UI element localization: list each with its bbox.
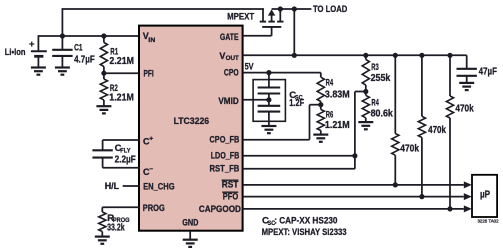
pin PFI label [144, 69, 154, 79]
pin LDO_FB label [211, 150, 240, 160]
svg-text:2.21M: 2.21M [109, 56, 134, 67]
wire GATE [243, 35, 272, 37]
470k-A label [400, 144, 419, 155]
svg-text:R6: R6 [326, 110, 334, 121]
svg-text:PROG: PROG [143, 203, 165, 213]
R1 label [109, 46, 134, 67]
wire VIN rail [38, 35, 140, 37]
ground (47uF) [459, 83, 474, 90]
svg-text:VMID: VMID [218, 96, 239, 106]
svg-text:PFI: PFI [144, 69, 154, 79]
node drain junction [278, 6, 283, 11]
svg-text:470k: 470k [400, 144, 419, 155]
pin VMID label [218, 96, 239, 106]
svg-text:CPO: CPO [224, 67, 239, 77]
wire C+ pin [103, 140, 140, 150]
pin RST_FB label [210, 163, 240, 173]
wire RST to uP [243, 181, 472, 188]
svg-text:CAPGOOD: CAPGOOD [199, 204, 241, 214]
svg-text:PFO: PFO [223, 191, 239, 201]
node rail/470k-C [447, 53, 452, 58]
node rail/470k-B [419, 53, 424, 58]
wire LDO_FB [243, 155, 355, 157]
node R3/R4 junction [363, 89, 368, 94]
svg-text:IN: IN [148, 37, 155, 44]
ground (R4b) [358, 122, 373, 129]
resistor R6 [317, 105, 324, 135]
47uF label [479, 67, 497, 78]
battery plus sign [29, 39, 35, 50]
svg-text:C1: C1 [74, 43, 83, 54]
wire CPO [243, 72, 321, 74]
Li-Ion battery label [5, 47, 26, 57]
note MPEXT [262, 227, 347, 238]
svg-text:4.7µF: 4.7µF [74, 54, 95, 65]
node rail/load [292, 53, 297, 58]
ground (CSC) [261, 126, 276, 133]
ground (RPROG) [95, 237, 110, 244]
svg-text:1.2F: 1.2F [289, 98, 304, 109]
svg-text:MPEXT: VISHAY Si2333: MPEXT: VISHAY Si2333 [262, 227, 347, 238]
svg-text:LDO_FB: LDO_FB [211, 150, 240, 160]
470k-B label [428, 125, 446, 136]
note CSC [262, 216, 338, 227]
node VIN/C1 junction [60, 33, 65, 38]
resistor R1 [100, 36, 107, 73]
svg-text:Li•Ion: Li•Ion [5, 47, 26, 57]
uP label [480, 190, 490, 201]
node rail/470k-A [393, 53, 398, 58]
pin VOUT label [219, 51, 238, 62]
node R1/R2/PFI junction [101, 71, 106, 76]
ground (battery) [31, 68, 46, 75]
R3 label [371, 62, 391, 84]
svg-text:MPEXT: MPEXT [227, 11, 255, 21]
node CPO/CSC junction [266, 70, 271, 75]
svg-text:5V: 5V [245, 61, 254, 72]
transistor MPEXT [260, 8, 284, 36]
wire top rail [62, 8, 264, 10]
pin EN_CHG label [143, 181, 175, 191]
R4a label [325, 78, 350, 101]
pin CAPGOOD label [199, 204, 241, 214]
svg-text:33.2k: 33.2k [107, 222, 125, 233]
C1 label [74, 43, 95, 66]
ground (C1) [55, 68, 70, 75]
pin PFO label [222, 191, 238, 201]
ground (R6) [313, 135, 328, 142]
capacitor 47uF [457, 55, 477, 82]
svg-text:H/L: H/L [105, 181, 120, 191]
pin GND label [182, 217, 199, 227]
op-amp U1 LTC3226 body [139, 26, 243, 231]
svg-text:470k: 470k [455, 103, 474, 114]
wire top-left riser [61, 9, 63, 36]
svg-text:TO LOAD: TO LOAD [313, 4, 348, 14]
svg-text:1.21M: 1.21M [325, 120, 350, 131]
resistor 470k (PFO) [418, 55, 425, 196]
H/L label [105, 181, 120, 191]
wire EN_CHG [123, 185, 140, 187]
svg-text:–: – [149, 166, 153, 173]
5V label [245, 61, 254, 72]
svg-text:2.2µF: 2.2µF [115, 155, 136, 166]
svg-text:: CAP-XX HS230: : CAP-XX HS230 [274, 216, 337, 227]
pin CPO_FB label [210, 134, 240, 144]
svg-text:47µF: 47µF [479, 67, 497, 78]
svg-text:+: + [29, 39, 35, 50]
node R4/R6/CPO_FB junction [318, 102, 323, 107]
svg-text:80.6k: 80.6k [371, 109, 394, 120]
R6 label [325, 110, 350, 132]
CSC outline box [253, 80, 285, 122]
node CAPGOOD/470k junction [447, 206, 452, 211]
svg-text:R3: R3 [371, 62, 379, 73]
svg-text:V: V [219, 51, 225, 61]
wire CPO_FB [243, 105, 321, 140]
resistor R2 [100, 73, 107, 106]
node load junction [292, 6, 297, 11]
svg-text:GND: GND [182, 217, 199, 227]
wire FB tap [355, 92, 366, 169]
resistor 470k (RST) [392, 55, 399, 185]
node rail/R3 [363, 53, 368, 58]
svg-text:FLY: FLY [120, 148, 131, 155]
resistor R4 (3.83M) [317, 73, 324, 105]
microprocessor uP box [472, 175, 497, 217]
R2 label [109, 83, 134, 104]
pin VIN label [143, 31, 156, 44]
pin PROG label [143, 203, 165, 213]
node RST/470k junction [393, 182, 398, 187]
wire GND lead [189, 231, 191, 240]
ground (U1 GND) [183, 240, 198, 247]
svg-text:EN_CHG: EN_CHG [143, 181, 175, 191]
pin RST label [222, 180, 239, 190]
pin CPO label [224, 67, 239, 77]
svg-text:3226 TA02: 3226 TA02 [478, 218, 500, 223]
pin GATE label [220, 32, 239, 42]
svg-text:OUT: OUT [226, 55, 239, 62]
U1 name label [174, 116, 210, 126]
ground (R2) [96, 106, 111, 113]
svg-text:RST: RST [222, 180, 239, 190]
R4b label [371, 98, 394, 120]
wire PROG [102, 206, 140, 208]
svg-text:1.21M: 1.21M [109, 93, 134, 104]
wire CAPGOOD to uP [243, 205, 472, 212]
capacitor CSC stack [258, 73, 281, 126]
resistor RPROG [99, 207, 106, 236]
TO LOAD label [313, 4, 348, 14]
wire PFI [104, 72, 140, 74]
resistor 470k (CAPGOOD) [446, 55, 453, 209]
svg-text:RST_FB: RST_FB [210, 163, 240, 173]
RPROG label [107, 213, 130, 234]
svg-text:CPO_FB: CPO_FB [210, 134, 240, 144]
pin C- label [143, 166, 153, 177]
node VIN/R1 junction [101, 33, 106, 38]
capacitor CFLY [92, 150, 139, 168]
svg-text:LTC3226: LTC3226 [174, 116, 210, 126]
470k-C label [455, 103, 474, 114]
node VMID/CSC junction [266, 97, 271, 102]
capacitor C1 [52, 36, 72, 67]
svg-text:GATE: GATE [220, 32, 239, 42]
resistor R4 (80.6k) [362, 92, 369, 122]
MPEXT label [227, 11, 255, 21]
wire RST_FB [243, 168, 355, 170]
svg-text:R4: R4 [371, 98, 379, 109]
node LDO_FB junction [352, 153, 357, 158]
resistor R3 [362, 55, 369, 91]
CSC label [289, 90, 304, 109]
wire load drop [293, 9, 295, 55]
svg-text:255k: 255k [371, 73, 391, 84]
CFLY label [115, 143, 136, 165]
svg-text:470k: 470k [428, 125, 446, 136]
wire VMID [243, 99, 269, 101]
battery B1 [31, 36, 47, 67]
svg-text:+: + [149, 135, 153, 142]
node PFO/470k junction [419, 194, 424, 199]
svg-text:µP: µP [480, 190, 490, 201]
pin C+ label [143, 135, 153, 146]
svg-text:3.83M: 3.83M [325, 90, 350, 101]
wire PFO to uP [243, 193, 472, 200]
svg-text:R4: R4 [326, 78, 334, 89]
wire top rail right [272, 8, 312, 10]
figure number label [478, 218, 500, 223]
wire VOUT rail [243, 54, 467, 56]
